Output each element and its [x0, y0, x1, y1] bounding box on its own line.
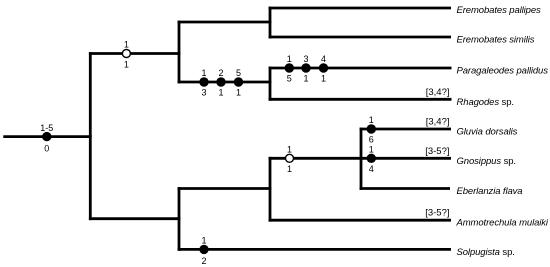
svg-text:Eremobates pallipes: Eremobates pallipes [457, 5, 542, 16]
wire: Gluvia clade stem [269, 157, 363, 160]
svg-text:[3,4?]: [3,4?] [426, 87, 450, 98]
svg-text:1: 1 [201, 68, 206, 78]
wire: Eremobates similis tip branch [269, 36, 451, 39]
svg-text:Solpugista sp.: Solpugista sp. [457, 247, 515, 258]
wire: Gnosippus tip branch [360, 157, 451, 160]
svg-text:4: 4 [369, 164, 374, 174]
wire: Paragaleodes+Rhagodes vertical [269, 67, 272, 101]
svg-text:1: 1 [236, 88, 241, 98]
svg-text:Paragaleodes pallidus: Paragaleodes pallidus [457, 66, 549, 77]
svg-text:2: 2 [201, 256, 206, 266]
wire: Eremobates clade vertical [269, 7, 272, 39]
wire: Gluvia dorsalis tip branch [360, 128, 451, 131]
wire: Gluvia clade vertical [360, 128, 363, 190]
svg-text:Rhagodes sp.: Rhagodes sp. [457, 97, 514, 108]
wire: root branch [3, 135, 91, 138]
node: filled circle 1 on Paragaleodes clade stem [199, 77, 208, 86]
wire: Eberlanzia flava tip branch [360, 187, 450, 190]
svg-text:1: 1 [369, 115, 374, 125]
svg-text:[3-5?]: [3-5?] [425, 146, 449, 157]
svg-text:0: 0 [44, 143, 49, 153]
wire: lower clade vertical [178, 187, 181, 251]
svg-text:2: 2 [218, 68, 223, 78]
svg-text:1: 1 [287, 54, 292, 64]
svg-text:5: 5 [236, 68, 241, 78]
wire: Rhagodes tip branch [269, 98, 452, 101]
node: filled circle 3 on Paragaleodes clade stem [234, 77, 243, 86]
svg-text:Eremobates similis: Eremobates similis [457, 35, 535, 46]
svg-text:Ammotrechula mulaiki: Ammotrechula mulaiki [456, 218, 549, 229]
wire: upper clade stem [89, 52, 180, 55]
svg-text:3: 3 [303, 54, 308, 64]
node: open circle on upper clade stem [122, 50, 130, 58]
svg-text:1: 1 [218, 88, 223, 98]
svg-text:4: 4 [321, 54, 326, 64]
node: filled circle on Gluvia tip branch [367, 124, 376, 133]
node: filled circle 2 on Paragaleodes clade stem [216, 77, 225, 86]
node: filled circle on Solpugista tip branch [199, 245, 208, 254]
svg-text:1: 1 [321, 73, 326, 83]
node: filled circle 2 on Paragaleodes tip branch [301, 63, 310, 72]
wire: Paragaleodes pallidus tip branch [269, 67, 452, 70]
svg-text:Eberlanzia flava: Eberlanzia flava [457, 186, 523, 197]
node: root character circle (filled) [42, 132, 51, 141]
wire: main trunk vertical [89, 52, 92, 220]
svg-text:[3,4?]: [3,4?] [426, 117, 450, 128]
svg-text:1: 1 [124, 59, 129, 69]
svg-text:[3-5?]: [3-5?] [425, 208, 449, 219]
svg-text:6: 6 [369, 134, 374, 144]
wire: lower clade stem [89, 217, 180, 220]
node: open circle on Gluvia clade stem [286, 154, 294, 162]
wire: Solpugista tip branch [178, 248, 451, 251]
svg-text:Gnosippus sp.: Gnosippus sp. [457, 156, 516, 167]
svg-text:1: 1 [124, 40, 129, 50]
node: filled circle 1 on Paragaleodes tip branch [285, 63, 294, 72]
wire: upper clade vertical [178, 21, 181, 84]
node: filled circle on Gnosippus tip branch [367, 154, 376, 163]
wire: Paragaleodes+Rhagodes stem [178, 81, 272, 84]
svg-text:Gluvia dorsalis: Gluvia dorsalis [457, 127, 518, 138]
svg-text:1: 1 [201, 236, 206, 246]
node: filled circle 3 on Paragaleodes tip branch [319, 63, 328, 72]
svg-text:1: 1 [287, 164, 292, 174]
wire: inner lower vertical [269, 157, 272, 222]
svg-text:1-5: 1-5 [40, 123, 53, 133]
wire: Eremobates pallipes tip branch [269, 7, 451, 10]
wire: inner lower stem [178, 187, 272, 190]
svg-text:1: 1 [303, 73, 308, 83]
wire: Eremobates clade stem [178, 21, 272, 24]
svg-text:5: 5 [287, 73, 292, 83]
svg-text:1: 1 [287, 145, 292, 155]
svg-text:3: 3 [201, 88, 206, 98]
wire: Ammotrechula tip branch [269, 219, 451, 222]
svg-text:1: 1 [369, 145, 374, 155]
